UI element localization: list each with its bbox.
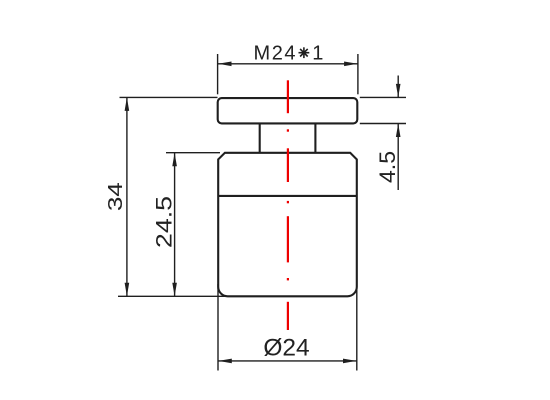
dimension 34 and 24.5 bottom extension line xyxy=(118,295,229,297)
dimension 34 line xyxy=(126,98,128,296)
dimension text 4.5 (rotated) xyxy=(375,151,399,183)
dimension D24 left extension line xyxy=(217,284,219,371)
dimension text M24 xyxy=(254,42,296,64)
dimension D24 right extension line xyxy=(356,284,358,371)
red centerline dot 3 xyxy=(287,278,289,280)
body groove line xyxy=(218,195,357,197)
dimension M24*1 extension line left xyxy=(217,54,219,94)
red centerline segment 1 (through cap) xyxy=(287,80,289,113)
dimension 4.5 upper leader line xyxy=(397,76,399,98)
dimension 4.5 lower arrowhead (pointing up) xyxy=(396,124,401,138)
dimension 24.5 top arrowhead xyxy=(172,153,177,167)
svg-text:4.5: 4.5 xyxy=(375,151,399,183)
red centerline segment 3 xyxy=(287,216,289,262)
red centerline dot 1 xyxy=(287,129,289,131)
dimension 34 top arrowhead xyxy=(125,97,130,111)
dimension 4.5 upper arrowhead (pointing down) xyxy=(396,84,401,98)
svg-text:1: 1 xyxy=(312,42,323,64)
dimension text 1 (of M24*1) xyxy=(312,42,323,64)
svg-text:M24: M24 xyxy=(254,42,296,64)
dimension 34 top extension line xyxy=(120,96,218,98)
dimension text diameter 24 xyxy=(263,335,309,362)
dimension M24*1 line xyxy=(218,63,358,65)
part body outline (chamfered top corners, filleted bottom corners) xyxy=(218,153,357,296)
dimension text 34 (rotated) xyxy=(104,182,126,211)
dimension text 24.5 (rotated) xyxy=(153,196,177,248)
dimension D24 left arrowhead xyxy=(218,359,232,364)
svg-text:24.5: 24.5 xyxy=(153,196,177,248)
dimension star symbol xyxy=(299,47,310,58)
dimension 24.5 top extension line xyxy=(166,152,220,154)
dimension D24 line xyxy=(218,360,356,362)
dimension M24*1 extension line right xyxy=(357,54,359,94)
part neck left edge xyxy=(259,123,261,152)
svg-text:Ø24: Ø24 xyxy=(263,335,309,362)
dimension 34 bottom arrowhead xyxy=(125,283,130,297)
dimension D24 right arrowhead xyxy=(343,359,357,364)
svg-text:34: 34 xyxy=(104,182,126,211)
part neck right edge xyxy=(314,123,316,152)
dimension 4.5 lower leader line xyxy=(397,124,399,190)
dimension M24*1 left arrowhead xyxy=(218,62,232,67)
red centerline segment 4 xyxy=(287,302,289,330)
dimension M24*1 right arrowhead xyxy=(344,62,358,67)
red centerline segment 2 xyxy=(287,148,289,182)
dimension 4.5 lower extension line xyxy=(360,123,406,125)
part cap (top disc) outline xyxy=(218,98,358,123)
dimension 24.5 bottom arrowhead xyxy=(172,283,177,297)
dimension 24.5 line xyxy=(174,153,176,296)
red centerline dot 2 xyxy=(287,201,289,203)
dimension 4.5 upper extension line xyxy=(360,96,406,98)
